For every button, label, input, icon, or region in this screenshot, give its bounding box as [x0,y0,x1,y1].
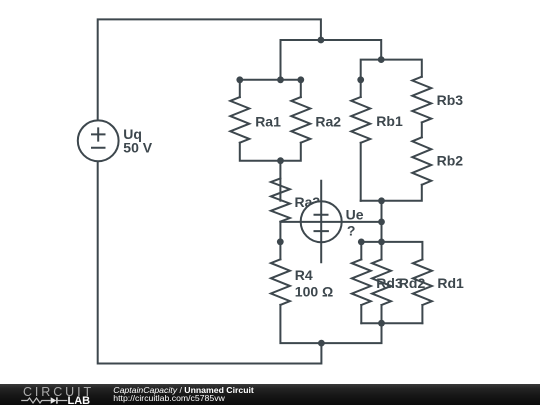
svg-text:Ra2: Ra2 [315,114,341,130]
svg-text:Rb1: Rb1 [376,113,403,129]
svg-text:?: ? [347,223,356,239]
svg-text:Rd2: Rd2 [399,275,426,291]
svg-text:Rb3: Rb3 [437,92,464,108]
svg-text:Rb2: Rb2 [437,152,464,168]
svg-text:100 Ω: 100 Ω [295,283,333,299]
svg-text:Rd1: Rd1 [437,275,464,291]
svg-text:Ue: Ue [346,206,364,222]
svg-text:50 V: 50 V [123,139,152,155]
svg-text:Ra1: Ra1 [255,114,281,130]
svg-text:R4: R4 [295,267,313,283]
